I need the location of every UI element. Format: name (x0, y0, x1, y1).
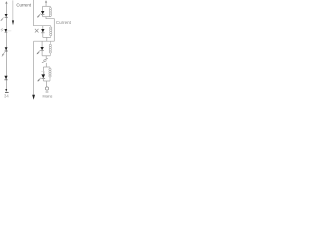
LED3 branch wire (41, 41, 43, 47)
wire from cell1 to right drop (46, 17, 54, 42)
svg-text:Mains: Mains (43, 94, 53, 98)
cell3 top bar (34, 40, 55, 42)
svg-text:Current: Current (16, 3, 31, 8)
stub to cell4 (45, 63, 47, 67)
current annotation arrow (left) (12, 0, 14, 20)
failure cross mark (35, 29, 39, 33)
LED3 cathode bar (40, 50, 43, 52)
coil L4 (49, 67, 51, 68)
coil L3 (49, 41, 51, 44)
emission arrows of D_A (1, 18, 4, 21)
wire: left string rail (5, 3, 7, 91)
wire: left rail lower run (33, 41, 35, 95)
node: top terminal up-arrow (left string) (5, 1, 7, 4)
diode D_B (left string) (4, 29, 7, 32)
break / continuation marks (43, 58, 48, 60)
coil L2 (50, 26, 52, 27)
faint tick right of D_B (7, 30, 11, 32)
LED2 branch wire (42, 26, 44, 29)
emission arrows of D_C (2, 52, 5, 56)
emission arrows of LED3 (37, 50, 41, 54)
LED4 entry jog (41, 72, 44, 75)
stub below cell4 (46, 81, 48, 87)
cell1 bottom bar (43, 16, 51, 18)
diode D_C (left string) (5, 47, 8, 50)
diode D_D (left string) (4, 76, 7, 80)
cell4 top bar (43, 66, 50, 68)
LED4 cathode bar (41, 78, 45, 80)
dash under circle (46, 91, 49, 93)
diode D_A (left string) (5, 14, 8, 17)
terminal circle (45, 87, 48, 90)
cell2 bottom bar (43, 36, 51, 38)
cell4 bottom bar (43, 80, 50, 82)
LED2 triangle (41, 29, 44, 33)
LED4 triangle (41, 74, 45, 78)
cell1 top bar (43, 5, 51, 7)
end bar (5, 91, 9, 93)
wire: right figure left rail (34, 0, 51, 26)
end arrowhead (left string) (5, 89, 7, 92)
LED2 cathode bar (41, 32, 44, 34)
cell3 bottom bar (42, 55, 50, 57)
svg-text:Current: Current (56, 20, 72, 25)
coil L1 (49, 6, 51, 7)
LED4 branch wire (42, 67, 44, 75)
wire: cell1 feed stub (45, 2, 47, 6)
arrowhead at bottom of left rail (32, 95, 35, 100)
emission arrows of LED1 (37, 14, 41, 18)
svg-text:34: 34 (4, 93, 9, 98)
stub below cell3 (45, 56, 47, 59)
LED1 triangle (41, 11, 44, 14)
node: top terminal up-arrow (cell1 feed) (45, 0, 47, 2)
LED1 cathode bar (41, 14, 44, 16)
LED3 triangle (40, 47, 43, 50)
LED1 branch wire (42, 6, 44, 11)
emission arrows of LED4 (38, 78, 41, 82)
stub cell2 to cell3 (46, 37, 48, 41)
